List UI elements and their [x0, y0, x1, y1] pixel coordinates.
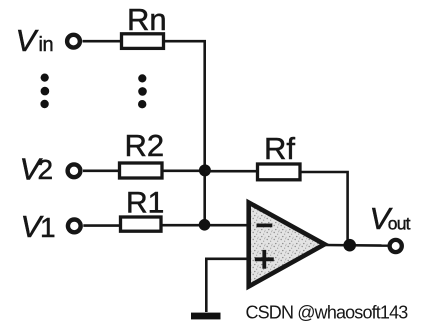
op-amp non-inverting marker: [255, 250, 274, 269]
op-amp inverting marker: [257, 224, 273, 228]
svg-text:Rf: Rf: [264, 131, 295, 166]
resistor Rf: [258, 131, 301, 180]
node V2 label: [20, 152, 54, 187]
terminal Vin: [67, 35, 80, 48]
svg-text:R2: R2: [125, 128, 165, 163]
node V1 label: [21, 209, 56, 244]
svg-text:1: 1: [40, 212, 56, 243]
wire V2 to R2: [83, 170, 120, 173]
wire junction to Rf: [205, 170, 258, 173]
junction node (R2 / feedback tap): [199, 164, 211, 176]
terminal V2: [68, 164, 81, 177]
svg-text:V: V: [16, 23, 40, 58]
resistor Rn: [122, 2, 167, 49]
ground: [191, 313, 221, 320]
wire Vin to Rn: [83, 40, 122, 43]
wire Rf to feedback corner, down to output node: [300, 172, 348, 245]
node Vout label: [370, 201, 411, 236]
svg-text:R1: R1: [126, 186, 164, 219]
ellipsis dots (more inputs, right column): [138, 74, 147, 108]
wire Rn to bus corner, bus vertical down to inverting node: [164, 41, 205, 226]
resistor R1: [121, 186, 165, 231]
svg-text:2: 2: [38, 154, 54, 185]
resistor R2: [120, 128, 165, 178]
node Vin label: [16, 23, 54, 58]
svg-text:Rn: Rn: [127, 2, 167, 37]
ellipsis dots (more inputs, left column): [40, 74, 49, 109]
wire R2 to bus junction: [162, 170, 205, 173]
junction node (R1 / bus): [199, 219, 211, 231]
wire non-inverting input to ground: [206, 259, 248, 312]
terminal V1: [68, 220, 81, 233]
svg-text:in: in: [39, 34, 54, 56]
wire op-amp output to Vout terminal: [325, 244, 388, 247]
svg-text:out: out: [388, 214, 411, 234]
wire R1 through junction to op-amp inverting input: [161, 224, 248, 227]
junction node (output / feedback): [343, 239, 356, 252]
wire V1 to R1: [83, 224, 120, 227]
svg-text:CSDN @whaosoft143: CSDN @whaosoft143: [246, 302, 409, 322]
op-amp U1: [249, 203, 325, 287]
terminal Vout: [390, 240, 402, 252]
